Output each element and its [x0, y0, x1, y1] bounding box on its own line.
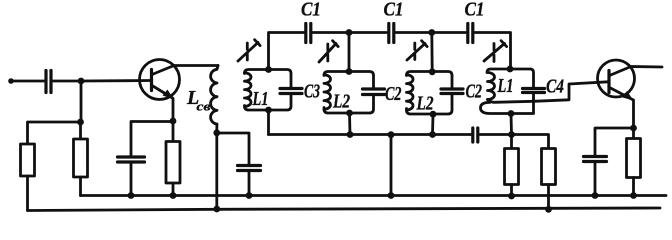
trimmer arrow tank3 [407, 41, 427, 60]
node mid rail tank3 [429, 131, 436, 138]
wire rail to tank2 [348, 33, 351, 72]
node mid rail ground drop [388, 131, 395, 138]
tank 3 outline [407, 72, 453, 115]
wire tank3 to mid rail [431, 114, 434, 134]
capacitor C3 plates [280, 89, 302, 94]
inductor L1 tank1 coil [245, 73, 252, 107]
wire lower bus [28, 208, 661, 211]
resistor R2 [79, 122, 82, 139]
wire input to coupling cap [11, 80, 44, 83]
inductor Lsv collector coil [211, 66, 218, 125]
node emitter junction [170, 118, 177, 125]
node tank4 bottom [508, 110, 515, 117]
svg-text:L1: L1 [252, 88, 269, 110]
input terminal [8, 78, 14, 84]
wire mid rail [269, 133, 472, 136]
node tank1 top [265, 66, 272, 73]
node Q2 emitter junction [630, 125, 637, 132]
resistor R6 emitter Q2 [632, 128, 635, 139]
wire emitter to bypass cap Q2 [595, 128, 634, 157]
capacitor C1 second [389, 24, 394, 43]
wire node down to divider [80, 81, 83, 122]
wire tank4 to mid rail [510, 114, 513, 135]
capacitor C2 tank2 plates [363, 89, 385, 95]
node divider junction [77, 119, 84, 126]
svg-text:св: св [197, 99, 211, 114]
svg-text:L2: L2 [332, 90, 350, 112]
resistor R5 [542, 149, 556, 185]
capacitor Q2 bypass [584, 157, 607, 162]
node Lsv bottom [213, 129, 220, 136]
node rail drop tank2 [346, 29, 353, 36]
node tank3 top [429, 68, 436, 75]
node rail drop tank3 [428, 29, 435, 36]
trimmer arrow tank2 [319, 41, 338, 62]
capacitor series mid rail [473, 128, 478, 142]
wire tank4 coil to base line [488, 82, 609, 103]
wire upper bus [81, 194, 667, 197]
capacitor C1 third [468, 24, 473, 43]
svg-text:C4: C4 [546, 76, 564, 98]
node mid rail tank2 [347, 131, 354, 138]
capacitor C2 tank3 plates [441, 89, 463, 94]
node tank3 bottom [430, 111, 437, 118]
wire Lsv to lower bus [215, 133, 218, 209]
wire rail segment 2 [313, 31, 387, 34]
wire to decoupling cap [217, 133, 249, 166]
svg-text:C2: C2 [466, 81, 483, 103]
wire rail to tank3 [430, 33, 433, 72]
wire R1 to lower bus [26, 176, 29, 211]
resistor R1 [21, 144, 35, 176]
wire rail segment 3 [396, 31, 466, 34]
wire R2 to upper bus [79, 177, 82, 196]
trimmer arrow tank1 [238, 40, 260, 61]
wire rail segment 4 [475, 33, 511, 69]
node tank2 top [346, 68, 353, 75]
node base-bias junction [78, 78, 85, 85]
resistor R3 emitter [172, 121, 175, 142]
transistor Q2 [598, 60, 635, 97]
wire emitter to bypass cap [131, 122, 173, 158]
svg-text:C1: C1 [465, 0, 485, 21]
wire cap to base node [53, 80, 81, 83]
wire Q2 emitter down [632, 100, 635, 128]
wire Q1 emitter down [172, 99, 175, 122]
inductor L2 tank3 coil [407, 75, 414, 110]
wire tank1 to mid rail [267, 110, 270, 135]
wire ground drop [390, 135, 393, 196]
capacitor emitter bypass [118, 157, 145, 162]
capacitor decoupling [238, 166, 261, 171]
capacitor C1 first [306, 24, 311, 43]
wire tank4 bottom loop [481, 101, 534, 113]
resistor R4 [510, 135, 513, 149]
trimmer arrow tank4 [484, 41, 507, 62]
wire divider horizontal [28, 122, 82, 144]
capacitor input coupling [46, 71, 51, 93]
capacitor C4 plates [523, 89, 545, 93]
svg-text:L1: L1 [497, 75, 514, 97]
transistor Q1 [140, 60, 180, 100]
svg-text:C1: C1 [384, 0, 404, 21]
svg-text:L2: L2 [416, 92, 434, 114]
wire top rail [269, 33, 304, 70]
wire tank2 to mid rail [348, 113, 351, 135]
svg-text:C3: C3 [304, 81, 320, 103]
tank 2 outline [324, 72, 374, 114]
tank 1 outline [245, 70, 292, 111]
tank 4 outline [487, 69, 534, 101]
svg-text:C2: C2 [385, 83, 402, 105]
node tank2 bottom [346, 110, 353, 117]
node tank1 bottom [265, 107, 272, 114]
node mid rail tank4 [508, 131, 515, 138]
wire base node to Q1 base [81, 79, 151, 82]
node tank4 top [507, 66, 514, 73]
svg-text:C1: C1 [301, 0, 321, 21]
inductor L2 tank2 coil [324, 75, 331, 109]
inductor L1 tank4 coil [488, 73, 495, 100]
